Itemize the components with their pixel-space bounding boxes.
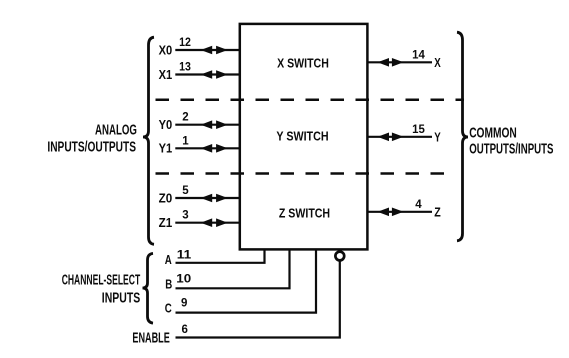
svg-text:CHANNEL-SELECT: CHANNEL-SELECT [62, 272, 141, 288]
bidirectional arrows on X0 wire [201, 46, 228, 55]
svg-text:X1: X1 [159, 68, 173, 82]
bidirectional arrows on Z0 wire [201, 194, 228, 203]
dashed section divider between X and Y switches [156, 99, 465, 102]
bidirectional arrows on Y common wire [377, 133, 403, 142]
svg-text:C: C [165, 302, 172, 316]
svg-text:11: 11 [177, 249, 192, 261]
svg-text:Z SWITCH: Z SWITCH [279, 205, 330, 220]
svg-text:Y: Y [434, 131, 441, 145]
wire X1 (pin 13) [175, 73, 239, 75]
brace analog inputs/outputs [143, 37, 154, 244]
svg-text:9: 9 [181, 297, 187, 309]
bidirectional arrows on Z common wire [377, 208, 403, 217]
enable bubble (active-low) [335, 252, 344, 261]
svg-text:Y SWITCH: Y SWITCH [276, 128, 328, 143]
svg-text:ENABLE: ENABLE [132, 331, 170, 347]
svg-text:14: 14 [412, 50, 425, 62]
svg-text:INPUTS: INPUTS [102, 290, 141, 306]
wire Z1 (pin 3) [175, 222, 239, 224]
svg-text:X SWITCH: X SWITCH [277, 55, 329, 70]
svg-text:15: 15 [412, 124, 425, 136]
svg-text:B: B [165, 278, 172, 292]
brace common outputs/inputs [457, 32, 468, 241]
switch block outline U1 [240, 24, 368, 250]
svg-text:4: 4 [415, 199, 422, 211]
bidirectional arrows on Y1 wire [201, 144, 228, 153]
svg-text:Z: Z [434, 206, 441, 220]
wire Y1 (pin 1) [175, 147, 239, 149]
svg-text:Z1: Z1 [159, 216, 173, 230]
svg-text:COMMON: COMMON [469, 125, 517, 142]
wire select A (pin 11) [176, 250, 265, 263]
wire Z0 (pin 5) [175, 197, 239, 199]
wire select C (pin 9) [176, 250, 317, 313]
bidirectional arrows on Y0 wire [201, 120, 228, 129]
svg-text:2: 2 [182, 112, 188, 124]
brace channel-select inputs [143, 253, 154, 323]
wire select B (pin 10) [176, 250, 290, 288]
wire ENABLE (pin 6) [176, 261, 340, 338]
svg-text:10: 10 [176, 274, 191, 286]
svg-text:Y1: Y1 [159, 142, 173, 156]
svg-text:6: 6 [181, 324, 187, 336]
wire Z common (pin 4) [368, 211, 432, 213]
svg-text:ANALOG: ANALOG [95, 122, 137, 138]
svg-text:12: 12 [179, 37, 191, 49]
svg-text:A: A [165, 253, 172, 267]
bidirectional arrows on Z1 wire [201, 218, 228, 227]
svg-text:X: X [434, 56, 441, 70]
svg-text:Y0: Y0 [159, 118, 173, 132]
svg-text:1: 1 [182, 135, 189, 147]
svg-text:3: 3 [182, 210, 188, 222]
svg-text:13: 13 [179, 62, 191, 74]
wire X0 (pin 12) [175, 49, 239, 51]
svg-text:X0: X0 [159, 43, 173, 57]
svg-text:5: 5 [182, 185, 189, 197]
wire Y0 (pin 2) [175, 124, 239, 126]
wire X common (pin 14) [368, 61, 432, 63]
bidirectional arrows on X1 wire [201, 70, 228, 79]
bidirectional arrows on X common wire [377, 58, 403, 67]
wire Y common (pin 15) [368, 136, 432, 138]
dashed section divider between Y and Z switches [156, 172, 452, 175]
svg-text:OUTPUTS/INPUTS: OUTPUTS/INPUTS [469, 140, 553, 157]
svg-text:Z0: Z0 [159, 191, 173, 205]
svg-text:INPUTS/OUTPUTS: INPUTS/OUTPUTS [47, 140, 136, 156]
